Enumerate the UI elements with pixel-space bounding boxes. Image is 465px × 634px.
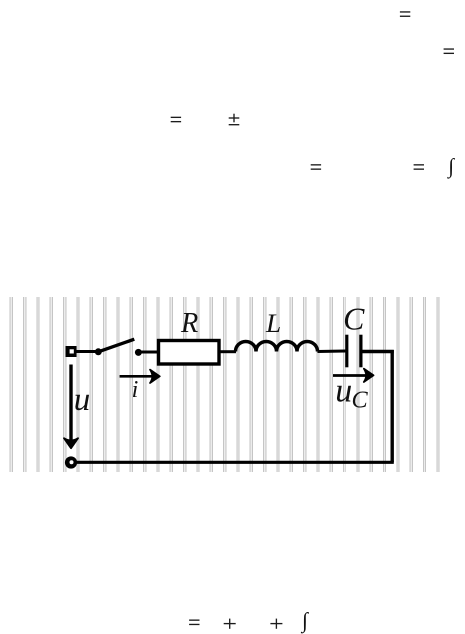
- equation symbol = (row4 right): [414, 165, 424, 169]
- svg-text:u: u: [335, 373, 352, 410]
- equation symbol + (bottom row, first): [224, 619, 236, 629]
- switch right node: [135, 349, 142, 356]
- equation symbol = (row4 left): [311, 165, 321, 169]
- equation symbol = (row1): [400, 12, 410, 16]
- wire: source terminal to switch pivot: [74, 350, 97, 353]
- arrow u head: [64, 438, 78, 448]
- arrow uC shaft: [333, 374, 366, 377]
- svg-text:u: u: [74, 382, 91, 418]
- svg-text:C: C: [352, 387, 369, 414]
- terminal (top, square): [66, 346, 77, 357]
- svg-text:L: L: [265, 309, 281, 338]
- switch blade (open): [98, 339, 134, 352]
- svg-text:R: R: [180, 308, 198, 339]
- svg-text:i: i: [132, 377, 139, 403]
- equation symbol + (bottom row, second): [270, 619, 282, 629]
- equation symbol = (bottom row): [189, 620, 199, 624]
- resistor R1 body: [159, 341, 220, 365]
- arrow uC head: [364, 369, 374, 382]
- terminal (bottom, circle): [65, 456, 77, 468]
- wire: capacitor to right corner: [362, 350, 394, 354]
- equation symbol plus-minus (row3): [229, 114, 240, 125]
- wire: inductor to capacitor: [318, 350, 346, 354]
- svg-text:∫: ∫: [446, 154, 455, 179]
- svg-text:C: C: [343, 302, 365, 337]
- wire: bottom return: [76, 461, 394, 464]
- equation symbol = (row3): [171, 117, 181, 121]
- wire: right vertical: [391, 350, 394, 462]
- equation symbol = (row2): [444, 49, 454, 53]
- inductor L1 coil: [235, 342, 317, 352]
- arrow i (current) shaft: [120, 375, 153, 378]
- svg-text:∫: ∫: [300, 609, 310, 634]
- arrow i head: [150, 370, 160, 383]
- capacitor C1 right plate: [359, 335, 362, 368]
- wire: resistor to inductor: [221, 350, 237, 353]
- capacitor C1 left plate: [345, 335, 348, 368]
- striped background band: [4, 297, 442, 472]
- arrow u (source voltage) shaft: [69, 365, 72, 442]
- switch pivot node: [95, 348, 102, 355]
- wire: switch to resistor: [138, 351, 158, 354]
